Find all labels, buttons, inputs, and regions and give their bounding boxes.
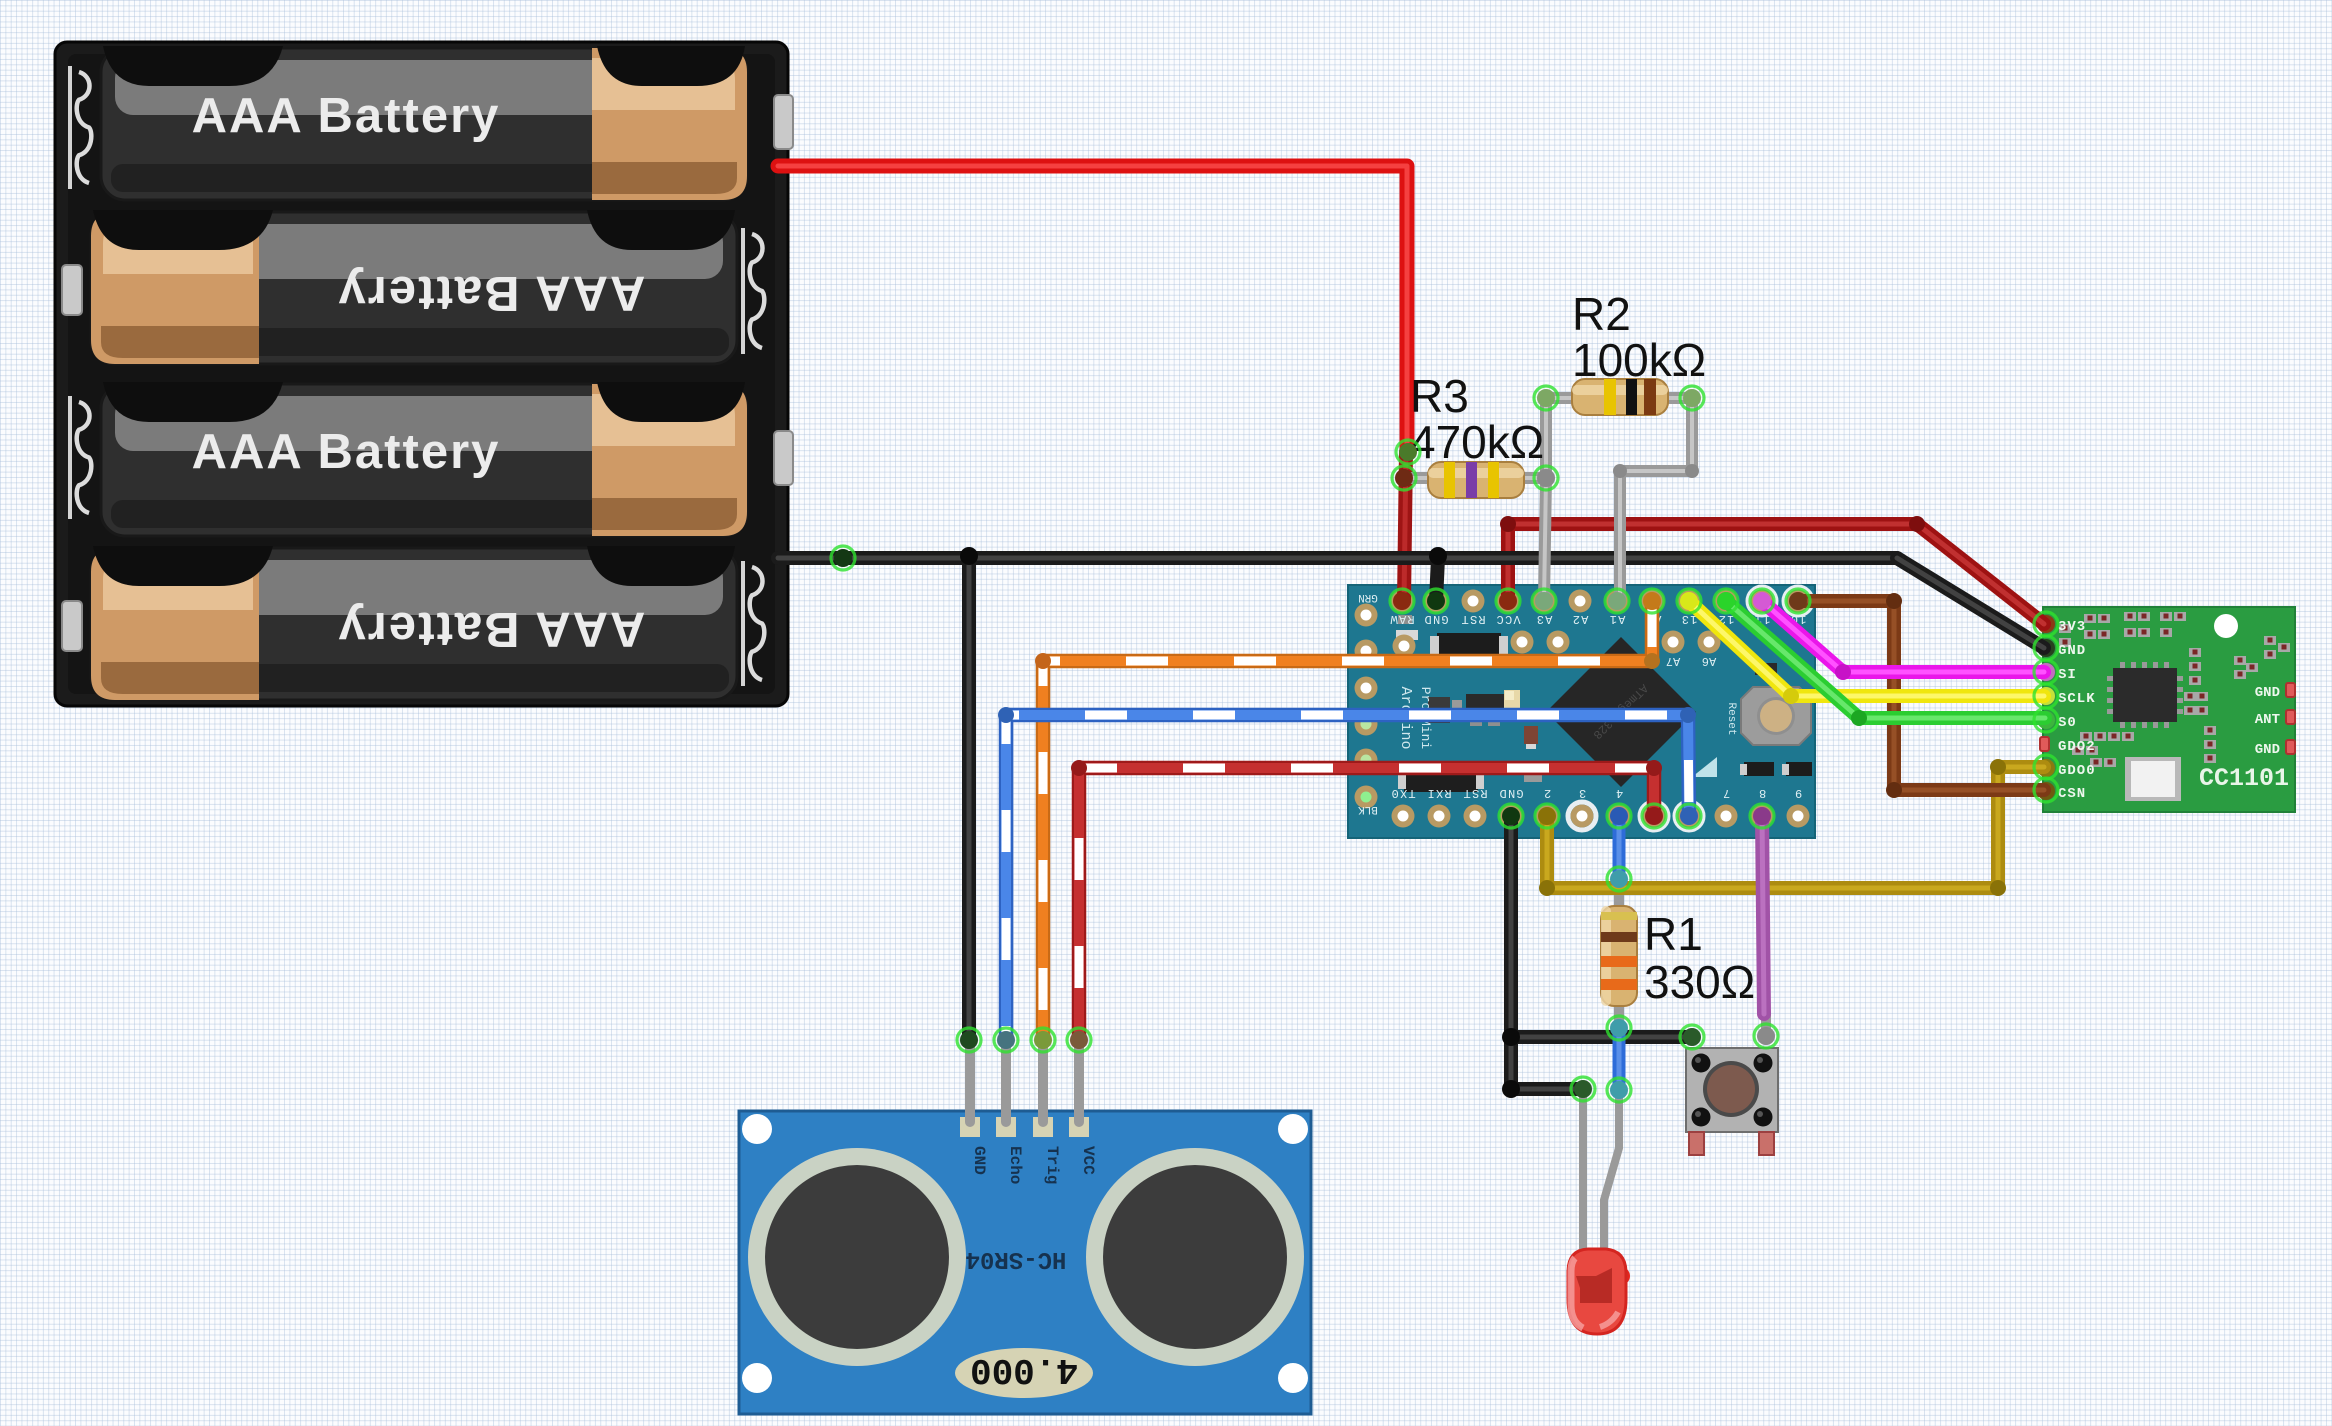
crystal oval 4.000 — [955, 1348, 1093, 1398]
svg-text:GRN: GRN — [1358, 591, 1378, 603]
wire R1 top lead — [1614, 884, 1624, 912]
svg-text:Reset: Reset — [1725, 702, 1737, 735]
resistor R3 470k body — [1428, 462, 1524, 498]
U1 pin RAW (top row) — [1389, 590, 1414, 627]
U1 pin RXI (bottom row) — [1426, 786, 1451, 828]
svg-text:AAA Battery: AAA Battery — [192, 425, 501, 479]
HC-SR04 pin VCC — [1069, 1117, 1097, 1175]
RF module U3 CC1101 — [2043, 607, 2295, 812]
U1 pin A4 (inner) — [1511, 631, 1534, 669]
svg-text:GND: GND — [2058, 643, 2086, 659]
svg-text:S0: S0 — [2058, 715, 2077, 731]
svg-text:GDO2: GDO2 — [2058, 739, 2096, 755]
svg-text:RXI: RXI — [1426, 786, 1451, 800]
wire brown pin10 to CC1101 CSN — [1798, 601, 2044, 790]
svg-text:GND: GND — [2255, 742, 2280, 758]
U3 pin GND — [2037, 639, 2086, 659]
svg-text:A2: A2 — [1572, 612, 1589, 626]
U3 crystal — [2125, 757, 2181, 801]
svg-text:4: 4 — [1615, 786, 1623, 800]
svg-text:100kΩ: 100kΩ — [1572, 334, 1706, 386]
wire SR04 GND stub — [965, 1040, 975, 1122]
svg-text:SI: SI — [2058, 667, 2077, 683]
U3 pad ANT (right) — [2255, 710, 2295, 728]
U3 pin GDO2 — [2040, 737, 2096, 755]
U3 pad GND (right) — [2255, 683, 2295, 701]
U1 pin 7 (bottom row) — [1715, 786, 1738, 828]
HC-SR04 pin GND — [960, 1117, 988, 1175]
svg-text:CC1101: CC1101 — [2199, 764, 2289, 793]
U1 programming header hole — [1355, 640, 1378, 663]
U1 programming header hole — [1355, 604, 1378, 627]
U3 pin S0 — [2037, 711, 2077, 731]
U3 pad GND (right) — [2255, 740, 2295, 758]
U1 programming header hole — [1355, 786, 1378, 809]
svg-text:BLK: BLK — [1358, 803, 1378, 815]
U1 pin VCC (top row) — [1495, 590, 1520, 627]
U1 pin TX0 (bottom row) — [1390, 786, 1415, 828]
U1 pin A7 (inner) — [1662, 631, 1685, 669]
svg-text:3V3: 3V3 — [2058, 619, 2086, 635]
U1 pin GND (top row) — [1423, 590, 1448, 627]
U1 pin RST (bottom row) — [1462, 786, 1487, 828]
wire green pin12 to CC1101 S0 — [1726, 601, 2045, 718]
U3 passives — [2059, 612, 2290, 767]
svg-text:7: 7 — [1722, 786, 1730, 800]
svg-text:GND: GND — [1498, 786, 1523, 800]
U3 pin SI — [2037, 663, 2077, 683]
U1 pin A0 (top row) — [1642, 590, 1665, 627]
U1 programming header hole — [1355, 713, 1378, 736]
HC-SR04 pin Trig — [1033, 1117, 1061, 1184]
U1 pin 12 (top row) — [1715, 590, 1738, 627]
svg-text:TX0: TX0 — [1390, 786, 1415, 800]
svg-text:HC-SR04: HC-SR04 — [966, 1245, 1067, 1272]
wire black branch to LED cathode — [1511, 1037, 1583, 1089]
svg-text:GDO0: GDO0 — [2058, 763, 2096, 779]
wire battery positive (red) — [778, 166, 1407, 452]
wire SR04 Echo stub — [1001, 1040, 1011, 1122]
wire magenta pin11 to CC1101 SI — [1762, 601, 2044, 672]
svg-text:330Ω: 330Ω — [1644, 956, 1755, 1008]
svg-text:R3: R3 — [1410, 370, 1469, 422]
U1 pin 6 (bottom row) — [1675, 786, 1703, 830]
U1 inner hole — [1393, 635, 1416, 658]
svg-text:A7: A7 — [1666, 654, 1680, 668]
U1 programming header hole — [1355, 677, 1378, 700]
HC-SR04 pin Echo — [996, 1117, 1024, 1184]
Arduino Pro Mini U1 — [1348, 585, 1815, 838]
svg-text:3: 3 — [1578, 786, 1586, 800]
battery B4 (AAA, positive left, flipped) — [62, 546, 737, 700]
svg-text:GND: GND — [970, 1146, 988, 1175]
svg-text:ANT: ANT — [2255, 712, 2280, 728]
U1 pin 13 (top row) — [1678, 590, 1701, 627]
svg-text:RST: RST — [1462, 786, 1487, 800]
wire black diagonal to CC1101 GND — [1897, 558, 2044, 648]
battery B1 (AAA, positive right) — [101, 46, 793, 200]
svg-text:470kΩ: 470kΩ — [1410, 416, 1544, 468]
svg-text:SCLK: SCLK — [2058, 691, 2096, 707]
U3 pin CSN — [2037, 782, 2086, 802]
svg-text:CSN: CSN — [2058, 786, 2086, 802]
wire dark red VCC to CC1101 3V3 — [1508, 524, 2044, 624]
U1 pin GND (bottom row) — [1498, 786, 1523, 828]
wire battery negative (black) to GND rail — [778, 551, 1897, 565]
reset button on U1 — [1725, 687, 1811, 745]
wire SR04 VCC stub — [1074, 1040, 1084, 1122]
wire black GND pin to button — [1511, 816, 1692, 1037]
transducer R (right) — [1086, 1148, 1304, 1366]
svg-text:A6: A6 — [1702, 654, 1716, 668]
battery B2 (AAA, positive left, flipped) — [62, 210, 737, 364]
wire dark red RAW feed — [1404, 452, 1406, 601]
U3 QFN chip — [2107, 662, 2183, 728]
U1 pin A5 (inner) — [1547, 631, 1570, 669]
battery holder spring contacts — [70, 66, 764, 686]
LED D1 leads — [1583, 1092, 1619, 1255]
wire black branch to Arduino GND (top) — [1436, 558, 1438, 601]
svg-text:R1: R1 — [1644, 908, 1703, 960]
U1 pin A1 (top row) — [1606, 590, 1629, 627]
U1 pin 2 (bottom row) — [1536, 786, 1559, 828]
U1 programming header hole — [1355, 749, 1378, 772]
svg-text:GND: GND — [2255, 685, 2280, 701]
wire R2 right lead down to pin A1 — [1620, 398, 1692, 601]
U1 pin 9 (bottom row) — [1787, 786, 1810, 828]
wire black branch to SR04 GND — [962, 558, 976, 1040]
svg-text:RST: RST — [1460, 612, 1485, 626]
U3 pin SCLK — [2037, 687, 2096, 707]
wire R3 right lead to node — [1500, 472, 1546, 484]
svg-text:Echo: Echo — [1006, 1146, 1024, 1184]
U1 pin 5 (bottom row) — [1640, 786, 1668, 830]
junction caps and connection rings — [831, 386, 2058, 1102]
svg-text:8: 8 — [1758, 786, 1766, 800]
battery B3 (AAA, positive right) — [101, 382, 793, 536]
wire blue pin4 to R1 — [1613, 816, 1626, 880]
resistor R1 330 body — [1601, 906, 1637, 1006]
wire yellow pin13 to CC1101 SCLK — [1689, 601, 2044, 696]
svg-text:AAA Battery: AAA Battery — [337, 602, 646, 656]
wire striped orange SR04 Trig to pin A0 — [1043, 601, 1652, 1040]
wire button stub (purple end) — [1761, 1014, 1771, 1040]
wire node down to pin A3 — [1544, 478, 1546, 601]
svg-text:R2: R2 — [1572, 288, 1631, 340]
U1 pin 11 (top row) — [1748, 587, 1776, 626]
svg-text:AAA Battery: AAA Battery — [337, 266, 646, 320]
ultrasonic sensor U2 HC-SR04 — [739, 1111, 1311, 1414]
U1 pin A3 (top row) — [1533, 590, 1556, 627]
U3 pin GDO0 — [2037, 759, 2096, 779]
wire SR04 Trig stub — [1038, 1040, 1048, 1122]
U1 pin RST (top row) — [1460, 590, 1485, 627]
svg-text:AAA Battery: AAA Battery — [192, 89, 501, 143]
wire striped blue SR04 Echo to pin 6 — [1006, 715, 1689, 1040]
svg-text:2: 2 — [1543, 786, 1551, 800]
U1 pin 3 (bottom row) — [1568, 786, 1596, 830]
pushbutton S1 — [1686, 1048, 1778, 1155]
U1 pin 8 (bottom row) — [1751, 786, 1774, 828]
U1 pin 4 (bottom row) — [1608, 786, 1631, 828]
resistor R2 100k body — [1572, 379, 1668, 415]
U3 pin 3V3 — [2037, 615, 2086, 635]
wire olive pin2 to CC1101 GDO0 — [1547, 767, 2044, 888]
wire R1 bottom lead — [1614, 1000, 1624, 1028]
SMD components on U1 — [1396, 615, 1812, 792]
svg-text:4.000: 4.000 — [970, 1349, 1078, 1390]
svg-text:9: 9 — [1794, 786, 1802, 800]
LED D1 (red) — [1568, 1249, 1630, 1334]
U1 pin 10 (top row) — [1784, 587, 1812, 626]
U1 pin A2 (top row) — [1569, 590, 1592, 627]
svg-text:VCC: VCC — [1079, 1146, 1097, 1175]
ATmega328 chip — [1546, 637, 1696, 787]
wire node up to R2 left — [1546, 398, 1590, 478]
U1 pin A6 (inner) — [1698, 631, 1721, 669]
wire purple pin8 to button — [1762, 816, 1764, 1014]
wire blue R1 to LED anode — [1613, 1028, 1626, 1090]
wire striped dark red SR04 VCC to pin 5 — [1079, 768, 1654, 1040]
svg-text:Trig: Trig — [1043, 1146, 1061, 1184]
transducer T (left) — [748, 1148, 966, 1366]
battery holder BT1 (4xAAA) — [55, 42, 788, 706]
wire R3 left lead to red net node — [1404, 472, 1450, 484]
